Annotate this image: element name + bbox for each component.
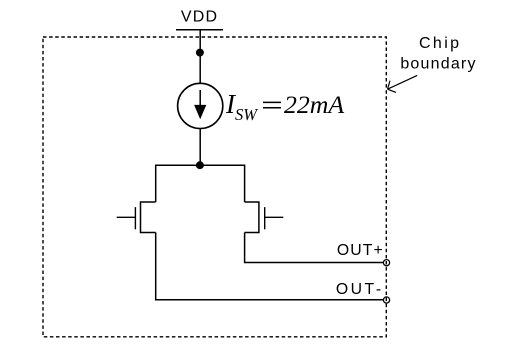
- label OUT+: [337, 242, 384, 259]
- wire current source to tail node: [199, 129, 201, 166]
- svg-text:OUT-: OUT-: [336, 281, 384, 298]
- svg-text:boundary: boundary: [400, 55, 476, 72]
- wire tail rail to transistor drains: [156, 165, 245, 202]
- label OUT-: [336, 281, 384, 298]
- current source ISW: [178, 83, 223, 128]
- transistor M2: [245, 202, 284, 233]
- terminal OUT+: [383, 260, 389, 266]
- svg-text:OUT+: OUT+: [337, 242, 384, 259]
- VDD label: [181, 9, 218, 26]
- wire M2 source to OUT+ terminal: [245, 233, 384, 263]
- terminal OUT-: [383, 297, 389, 303]
- svg-text:ISW: ISW: [225, 89, 258, 124]
- wire VDD rail to current source: [199, 30, 201, 84]
- svg-text:VDD: VDD: [181, 9, 218, 26]
- chip boundary dashed box: [43, 37, 386, 337]
- label: Chip boundary: [400, 35, 476, 72]
- VDD rail bar: [176, 29, 223, 31]
- svg-text:22mA: 22mA: [284, 90, 344, 119]
- wire M1 source to OUT- terminal: [156, 233, 384, 300]
- transistor M1: [117, 202, 156, 233]
- junction dot on supply wire: [196, 49, 204, 57]
- svg-text:Chip: Chip: [419, 35, 462, 52]
- annotation arrow pointing to boundary: [388, 75, 418, 92]
- value label ISW = 22mA: [225, 89, 344, 124]
- tail node junction dot: [196, 161, 204, 169]
